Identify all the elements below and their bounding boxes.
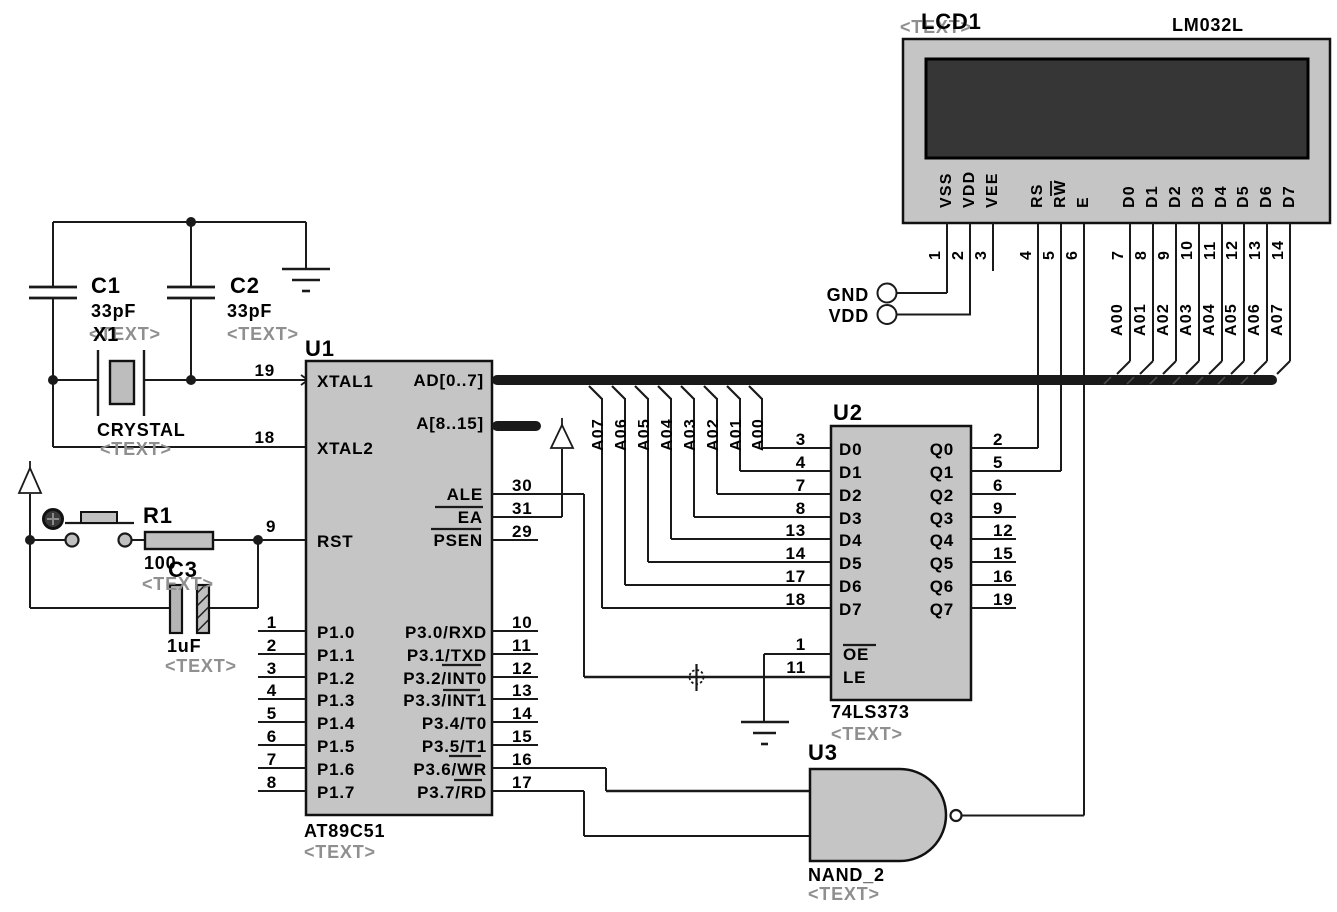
svg-text:Q0: Q0 bbox=[930, 440, 954, 459]
svg-text:18: 18 bbox=[254, 428, 275, 447]
svg-text:A05: A05 bbox=[1223, 303, 1240, 336]
svg-text:14: 14 bbox=[785, 544, 806, 563]
svg-text:13: 13 bbox=[512, 681, 533, 700]
svg-text:<TEXT>: <TEXT> bbox=[808, 884, 880, 904]
svg-text:11: 11 bbox=[786, 658, 806, 677]
svg-text:AD[0..7]: AD[0..7] bbox=[413, 371, 484, 390]
svg-text:LM032L: LM032L bbox=[1172, 15, 1244, 35]
svg-text:P3.2/INT0: P3.2/INT0 bbox=[403, 669, 487, 688]
svg-text:9: 9 bbox=[1156, 250, 1173, 260]
svg-text:6: 6 bbox=[267, 727, 277, 746]
svg-text:X1: X1 bbox=[93, 324, 119, 346]
svg-text:LE: LE bbox=[843, 668, 866, 687]
svg-text:A03: A03 bbox=[1178, 303, 1195, 336]
svg-text:P3.7/RD: P3.7/RD bbox=[417, 783, 487, 802]
svg-text:17: 17 bbox=[785, 567, 806, 586]
svg-text:P1.0: P1.0 bbox=[317, 623, 355, 642]
svg-text:7: 7 bbox=[796, 476, 806, 495]
svg-text:A02: A02 bbox=[705, 418, 722, 451]
svg-text:P1.4: P1.4 bbox=[317, 714, 355, 733]
svg-text:P1.6: P1.6 bbox=[317, 760, 355, 779]
svg-text:<TEXT>: <TEXT> bbox=[831, 724, 903, 744]
svg-text:6: 6 bbox=[993, 476, 1003, 495]
svg-text:16: 16 bbox=[993, 567, 1014, 586]
svg-text:8: 8 bbox=[267, 773, 277, 792]
svg-text:P3.1/TXD: P3.1/TXD bbox=[407, 646, 487, 665]
svg-text:12: 12 bbox=[512, 659, 533, 678]
svg-text:D3: D3 bbox=[839, 509, 862, 528]
svg-text:D7: D7 bbox=[839, 600, 862, 619]
svg-text:R1: R1 bbox=[143, 503, 173, 528]
svg-text:Q5: Q5 bbox=[930, 554, 954, 573]
svg-text:LCD1: LCD1 bbox=[921, 9, 982, 34]
svg-text:E: E bbox=[1075, 196, 1092, 208]
svg-text:33pF: 33pF bbox=[227, 301, 272, 321]
svg-text:13: 13 bbox=[1247, 240, 1264, 260]
svg-text:RW: RW bbox=[1052, 179, 1069, 208]
svg-text:Q1: Q1 bbox=[930, 463, 954, 482]
svg-text:A02: A02 bbox=[1155, 303, 1172, 336]
svg-text:1uF: 1uF bbox=[167, 636, 201, 656]
svg-text:<TEXT>: <TEXT> bbox=[142, 574, 214, 594]
svg-text:Q3: Q3 bbox=[930, 509, 954, 528]
svg-text:C2: C2 bbox=[230, 273, 260, 298]
svg-text:7: 7 bbox=[1110, 250, 1127, 260]
svg-text:33pF: 33pF bbox=[91, 301, 136, 321]
svg-text:3: 3 bbox=[267, 659, 277, 678]
svg-text:9: 9 bbox=[266, 517, 276, 536]
svg-text:OE: OE bbox=[843, 645, 869, 664]
svg-text:<TEXT>: <TEXT> bbox=[165, 656, 237, 676]
svg-text:8: 8 bbox=[796, 499, 806, 518]
svg-text:D4: D4 bbox=[1213, 185, 1230, 208]
svg-text:19: 19 bbox=[993, 590, 1014, 609]
svg-text:29: 29 bbox=[512, 522, 533, 541]
svg-text:D0: D0 bbox=[1121, 185, 1138, 208]
svg-text:P3.6/WR: P3.6/WR bbox=[413, 760, 487, 779]
svg-text:A04: A04 bbox=[1201, 303, 1218, 336]
svg-text:A00: A00 bbox=[1109, 303, 1126, 336]
svg-text:30: 30 bbox=[512, 476, 533, 495]
svg-text:A[8..15]: A[8..15] bbox=[416, 414, 484, 433]
svg-text:8: 8 bbox=[1133, 250, 1150, 260]
svg-text:VDD: VDD bbox=[961, 171, 978, 208]
svg-text:P1.1: P1.1 bbox=[317, 646, 355, 665]
svg-text:1: 1 bbox=[267, 613, 277, 632]
svg-text:D6: D6 bbox=[1258, 185, 1275, 208]
svg-text:1: 1 bbox=[927, 250, 944, 260]
svg-text:A06: A06 bbox=[1246, 303, 1263, 336]
svg-text:2: 2 bbox=[993, 430, 1003, 449]
svg-text:D5: D5 bbox=[839, 554, 862, 573]
svg-text:VSS: VSS bbox=[938, 172, 955, 208]
svg-text:11: 11 bbox=[1202, 241, 1219, 260]
svg-text:3: 3 bbox=[796, 430, 806, 449]
svg-text:U3: U3 bbox=[808, 740, 838, 765]
svg-text:P3.5/T1: P3.5/T1 bbox=[422, 737, 487, 756]
svg-text:A03: A03 bbox=[682, 418, 699, 451]
svg-text:74LS373: 74LS373 bbox=[831, 702, 910, 722]
svg-text:P1.5: P1.5 bbox=[317, 737, 355, 756]
svg-text:D1: D1 bbox=[1144, 185, 1161, 208]
svg-text:13: 13 bbox=[785, 521, 806, 540]
svg-text:5: 5 bbox=[267, 704, 277, 723]
svg-text:14: 14 bbox=[1270, 240, 1287, 260]
svg-text:D2: D2 bbox=[839, 486, 862, 505]
svg-text:4: 4 bbox=[267, 681, 277, 700]
svg-text:3: 3 bbox=[973, 250, 990, 260]
svg-text:A04: A04 bbox=[659, 418, 676, 451]
svg-text:A00: A00 bbox=[750, 418, 767, 451]
svg-text:5: 5 bbox=[993, 453, 1003, 472]
svg-text:P1.3: P1.3 bbox=[317, 691, 355, 710]
svg-text:Q7: Q7 bbox=[930, 600, 954, 619]
svg-text:<TEXT>: <TEXT> bbox=[100, 439, 172, 459]
svg-text:P3.4/T0: P3.4/T0 bbox=[422, 714, 487, 733]
svg-text:A05: A05 bbox=[636, 418, 653, 451]
svg-text:ALE: ALE bbox=[447, 485, 483, 504]
svg-text:A06: A06 bbox=[613, 418, 630, 451]
svg-text:12: 12 bbox=[993, 521, 1014, 540]
svg-text:P1.2: P1.2 bbox=[317, 669, 355, 688]
svg-text:17: 17 bbox=[512, 773, 533, 792]
svg-text:Q2: Q2 bbox=[930, 486, 954, 505]
svg-text:D0: D0 bbox=[839, 440, 862, 459]
svg-text:9: 9 bbox=[993, 499, 1003, 518]
svg-text:P1.7: P1.7 bbox=[317, 783, 355, 802]
svg-text:18: 18 bbox=[785, 590, 806, 609]
svg-text:CRYSTAL: CRYSTAL bbox=[97, 420, 186, 440]
svg-text:<TEXT>: <TEXT> bbox=[304, 842, 376, 862]
svg-text:2: 2 bbox=[267, 636, 277, 655]
svg-text:XTAL2: XTAL2 bbox=[317, 439, 374, 458]
svg-text:EA: EA bbox=[458, 508, 483, 527]
svg-text:D4: D4 bbox=[839, 531, 862, 550]
svg-text:C1: C1 bbox=[91, 273, 121, 298]
svg-text:19: 19 bbox=[254, 361, 275, 380]
svg-text:<TEXT>: <TEXT> bbox=[227, 324, 299, 344]
svg-text:P3.3/INT1: P3.3/INT1 bbox=[403, 691, 487, 710]
svg-text:D1: D1 bbox=[839, 463, 862, 482]
svg-text:6: 6 bbox=[1064, 250, 1081, 260]
svg-text:VDD: VDD bbox=[829, 306, 869, 326]
svg-text:10: 10 bbox=[1179, 240, 1196, 260]
svg-text:4: 4 bbox=[796, 453, 806, 472]
svg-text:15: 15 bbox=[512, 727, 533, 746]
svg-text:4: 4 bbox=[1018, 250, 1035, 260]
svg-text:PSEN: PSEN bbox=[434, 531, 484, 550]
svg-text:12: 12 bbox=[1224, 240, 1241, 260]
svg-text:U1: U1 bbox=[305, 336, 335, 361]
svg-text:D6: D6 bbox=[839, 577, 862, 596]
svg-text:16: 16 bbox=[512, 750, 533, 769]
svg-text:VEE: VEE bbox=[984, 172, 1001, 208]
svg-text:31: 31 bbox=[512, 499, 533, 518]
svg-text:A01: A01 bbox=[728, 418, 745, 451]
svg-text:7: 7 bbox=[267, 750, 277, 769]
svg-text:U2: U2 bbox=[833, 400, 863, 425]
svg-text:2: 2 bbox=[950, 250, 967, 260]
svg-text:AT89C51: AT89C51 bbox=[304, 821, 385, 841]
svg-text:A07: A07 bbox=[590, 418, 607, 451]
svg-text:11: 11 bbox=[512, 636, 532, 655]
svg-text:10: 10 bbox=[512, 613, 533, 632]
svg-text:Q6: Q6 bbox=[930, 577, 954, 596]
svg-text:P3.0/RXD: P3.0/RXD bbox=[405, 623, 487, 642]
svg-text:RS: RS bbox=[1029, 183, 1046, 208]
svg-text:XTAL1: XTAL1 bbox=[317, 372, 374, 391]
svg-text:D7: D7 bbox=[1281, 185, 1298, 208]
svg-text:D2: D2 bbox=[1167, 185, 1184, 208]
svg-text:15: 15 bbox=[993, 544, 1014, 563]
svg-text:GND: GND bbox=[827, 285, 869, 305]
svg-text:D3: D3 bbox=[1190, 185, 1207, 208]
svg-text:A07: A07 bbox=[1269, 303, 1286, 336]
svg-text:RST: RST bbox=[317, 532, 353, 551]
svg-text:Q4: Q4 bbox=[930, 531, 954, 550]
svg-text:1: 1 bbox=[796, 635, 806, 654]
svg-text:D5: D5 bbox=[1235, 185, 1252, 208]
svg-text:14: 14 bbox=[512, 704, 533, 723]
svg-text:NAND_2: NAND_2 bbox=[808, 865, 885, 885]
svg-text:5: 5 bbox=[1041, 250, 1058, 260]
svg-text:A01: A01 bbox=[1132, 303, 1149, 336]
